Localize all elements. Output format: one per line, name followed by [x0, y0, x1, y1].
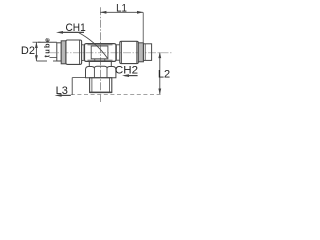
right collet housing [120, 41, 139, 63]
hex nut CH2 [86, 66, 116, 78]
wire: CH1 leader underline and arrow [56, 31, 107, 58]
wire: L3 underline and arrow [55, 94, 71, 97]
svg-text:L1: L1 [116, 3, 127, 15]
left port guide ring [57, 43, 61, 61]
threaded stud [90, 78, 112, 93]
central hex face chamfer lines [88, 45, 113, 60]
branch neck [89, 59, 111, 67]
left release ring (gray) [61, 41, 66, 64]
wire: L3 extension bracket [72, 78, 85, 95]
right waist groove [116, 45, 119, 60]
right collet [143, 44, 151, 61]
wire: L2 dimension line with arrows [158, 52, 161, 94]
svg-text:CH2: CH2 [115, 65, 138, 77]
left collet housing [66, 40, 82, 64]
right release ring (gray) [138, 43, 143, 62]
wire: bottom extension line (dashed) [71, 93, 163, 95]
svg-text:D2: D2 [21, 45, 35, 57]
wire: CH2 leader underline and arrow [122, 74, 138, 77]
wire: branch centerline (dash-dot vertical) [99, 7, 101, 102]
central hex body CH1 [84, 44, 116, 62]
tube (inserted in left port) [37, 42, 57, 61]
wire: D2 dimension line with arrows [33, 42, 41, 61]
left waist groove [82, 45, 84, 61]
svg-text:L2: L2 [158, 68, 170, 80]
wire: L1 dimension line [100, 11, 143, 42]
wire: run centerline (dash-dot through body) [48, 52, 172, 54]
svg-text:tube: tube [43, 38, 52, 58]
central hex flat face [91, 46, 108, 59]
